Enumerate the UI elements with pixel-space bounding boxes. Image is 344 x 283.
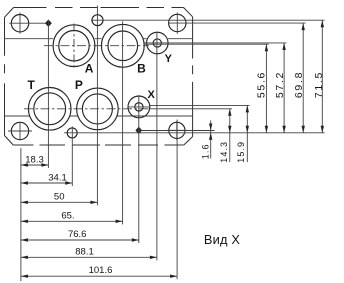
dimension 101.6: [21, 265, 177, 278]
svg-text:71.5: 71.5: [313, 71, 325, 98]
body line lower: [5, 115, 193, 117]
dimension 71.5: [313, 20, 325, 133]
dimension 88.1: [21, 246, 157, 259]
extension line lower (55.6): [144, 43, 269, 45]
dimension 55.6: [256, 44, 268, 133]
svg-text:55.6: 55.6: [256, 71, 268, 98]
svg-text:1.6: 1.6: [201, 143, 211, 159]
port B: [101, 24, 144, 67]
plate bottom edge (dashed): [13, 144, 184, 146]
drain hole bottom (on datum row): [67, 128, 77, 138]
port T: [28, 88, 71, 131]
port X horizontal centerline: [128, 106, 151, 108]
row centerline T-P (dash-dot) with extension (14.3): [24, 108, 232, 110]
bolt hole top-left: [11, 13, 28, 34]
column line B: [122, 22, 124, 225]
node marker bottom-right (reference point): [135, 127, 142, 134]
bolt hole bottom-right: [167, 121, 187, 140]
extension line X upper (15.9): [150, 104, 250, 106]
port X label: [148, 89, 156, 101]
port Y: [147, 32, 169, 54]
svg-text:P: P: [75, 78, 83, 92]
column line X: [138, 95, 140, 243]
column line Y: [156, 32, 158, 261]
svg-text:T: T: [28, 78, 36, 92]
extension line from top-right bolt (69.8): [168, 22, 306, 24]
dimension 50: [21, 192, 98, 204]
port P label: [75, 78, 83, 92]
svg-text:15.9: 15.9: [236, 141, 246, 163]
row centerline A-B (dash-dot): [44, 45, 149, 47]
dimension 34.1: [21, 172, 72, 184]
bolt hole bottom-left: [8, 122, 32, 141]
column line drain hole: [71, 126, 73, 186]
port X: [128, 96, 150, 118]
svg-text:Вид X: Вид X: [204, 232, 241, 247]
dimension 76.6: [21, 229, 139, 242]
svg-text:69.8: 69.8: [293, 71, 305, 98]
body line upper: [5, 38, 193, 40]
reference line L2 (datum row): [64, 132, 325, 134]
column line T: [47, 20, 49, 168]
dimension 65.: [21, 211, 123, 223]
node marker top (reference point): [45, 20, 52, 27]
pilot hole top (on P column): [91, 15, 103, 26]
port P: [77, 88, 119, 130]
svg-text:101.6: 101.6: [89, 265, 113, 276]
column line right bolts: [176, 120, 178, 280]
port Y centerline / extension (57.2): [145, 42, 287, 44]
svg-text:50: 50: [54, 192, 65, 203]
svg-text:14.3: 14.3: [219, 141, 229, 163]
plate bottom-left chamfer: [5, 136, 14, 146]
plate top-right chamfer: [184, 8, 193, 17]
dimension 15.9: [236, 105, 249, 162]
port A vertical centerline: [73, 24, 75, 69]
svg-text:A: A: [85, 62, 94, 76]
plate bottom-right chamfer: [184, 137, 193, 145]
extension line from pilot hole (71.5): [98, 19, 325, 21]
svg-text:18.3: 18.3: [25, 155, 44, 166]
dimension 18.3: [21, 155, 49, 167]
left reference extension line: [20, 148, 22, 281]
svg-text:Y: Y: [165, 53, 173, 65]
plate top-left chamfer: [5, 8, 14, 18]
svg-text:B: B: [137, 61, 146, 75]
port A label: [85, 62, 94, 76]
svg-text:57.2: 57.2: [274, 71, 286, 98]
plate top edge (dashed): [14, 7, 184, 9]
port A: [53, 25, 95, 67]
port Y label: [165, 53, 173, 65]
svg-text:X: X: [148, 89, 156, 101]
svg-text:65.: 65.: [61, 211, 74, 222]
plate right edge (dash-dot): [192, 17, 194, 137]
port B label: [137, 61, 146, 75]
svg-text:34.1: 34.1: [48, 172, 67, 183]
column line P: [96, 6, 98, 206]
bolt hole top-right: [169, 13, 186, 34]
svg-text:76.6: 76.6: [68, 229, 87, 240]
port T label: [28, 78, 36, 92]
dimension 69.8: [293, 23, 305, 133]
reference line L1 (bolt row): [139, 130, 214, 132]
svg-text:88.1: 88.1: [75, 246, 94, 257]
view title: [204, 232, 241, 247]
dimension 1.6: [201, 121, 213, 160]
dimension 14.3: [219, 109, 231, 163]
plate left edge (dash-dot): [4, 17, 6, 135]
leader from top-left bolt to node: [9, 22, 48, 24]
dimension 57.2: [274, 43, 286, 133]
